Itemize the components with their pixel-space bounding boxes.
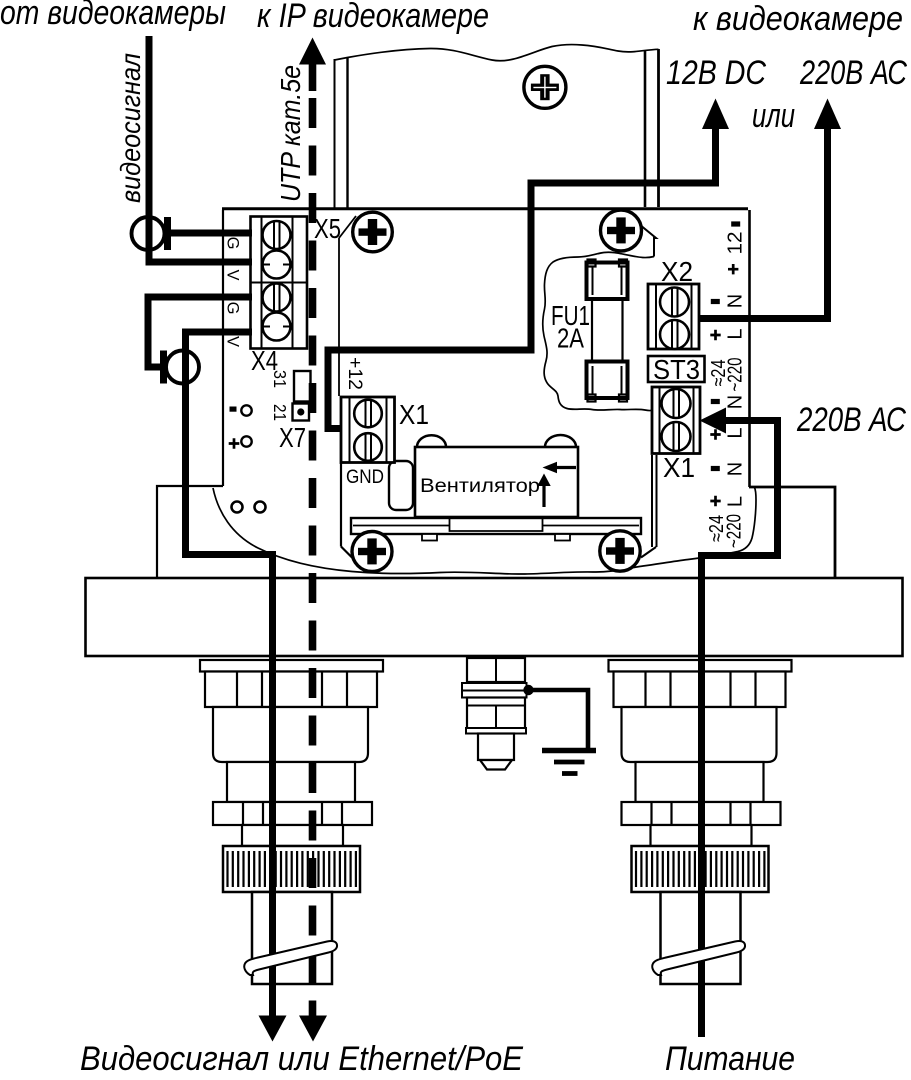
- svg-text:12: 12: [725, 232, 747, 255]
- svg-text:N: N: [725, 294, 747, 308]
- svg-text:G: G: [224, 237, 242, 250]
- svg-text:X5: X5: [314, 213, 341, 244]
- svg-text:L: L: [725, 496, 747, 507]
- svg-text:V: V: [224, 269, 242, 280]
- svg-text:X7: X7: [279, 422, 306, 453]
- svg-text:Вентилятор: Вентилятор: [420, 475, 540, 497]
- svg-text:к IP видеокамере: к IP видеокамере: [257, 0, 489, 35]
- svg-text:X2: X2: [661, 256, 693, 287]
- svg-text:GND: GND: [346, 466, 384, 488]
- svg-text:12В DC: 12В DC: [666, 54, 766, 92]
- svg-text:G: G: [224, 302, 242, 315]
- svg-text:X1: X1: [663, 452, 695, 483]
- svg-text:ST3: ST3: [653, 354, 700, 385]
- svg-text:L: L: [725, 427, 747, 438]
- svg-text:V: V: [224, 336, 242, 347]
- svg-text:или: или: [752, 97, 795, 135]
- svg-text:UTP кат.5е: UTP кат.5е: [275, 65, 306, 202]
- svg-text:21: 21: [270, 404, 290, 421]
- svg-text:31: 31: [270, 370, 290, 388]
- svg-text:+12: +12: [344, 357, 366, 390]
- svg-text:N: N: [725, 395, 747, 409]
- svg-text:от видеокамеры: от видеокамеры: [0, 0, 226, 32]
- svg-text:≈24: ≈24: [706, 515, 728, 542]
- svg-text:N: N: [725, 462, 747, 476]
- svg-text:2A: 2A: [557, 323, 585, 354]
- svg-text:L: L: [725, 328, 747, 339]
- svg-text:Питание: Питание: [665, 1040, 795, 1078]
- svg-text:≈24: ≈24: [708, 360, 730, 387]
- svg-text:к видеокамере: к видеокамере: [693, 0, 903, 38]
- svg-text:видеосигнал: видеосигнал: [115, 53, 146, 203]
- svg-text:220В АС: 220В АС: [796, 401, 906, 439]
- svg-text:220В АС: 220В АС: [799, 54, 907, 92]
- svg-text:X1: X1: [399, 399, 429, 430]
- svg-text:Видеосигнал или Ethernet/PoE: Видеосигнал или Ethernet/PoE: [80, 1040, 523, 1078]
